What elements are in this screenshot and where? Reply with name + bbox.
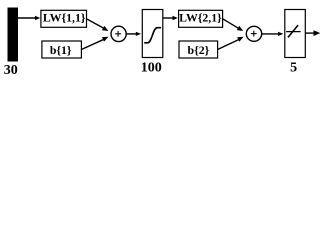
svg-text:LW{2,1}: LW{2,1}	[179, 11, 222, 25]
svg-text:30: 30	[4, 63, 18, 78]
svg-text:LW{1,1}: LW{1,1}	[43, 11, 86, 25]
svg-text:100: 100	[141, 61, 162, 76]
svg-text:b{2}: b{2}	[188, 43, 210, 57]
svg-text:b{1}: b{1}	[50, 43, 72, 57]
svg-text:5: 5	[290, 61, 297, 76]
